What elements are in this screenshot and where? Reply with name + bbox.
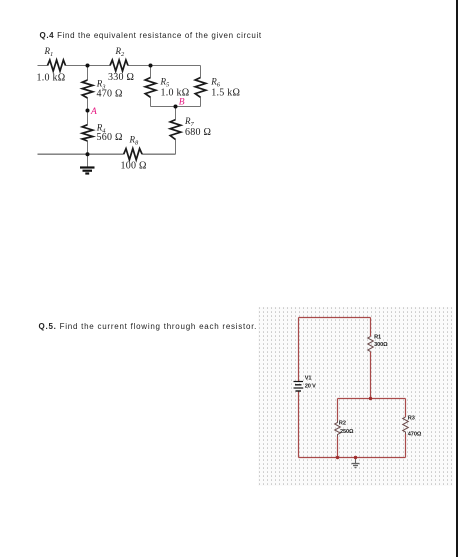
svg-text:R1: R1 <box>374 335 381 341</box>
wire R6 to parallel bottom <box>200 97 202 106</box>
svg-text:250Ω: 250Ω <box>340 429 354 435</box>
svg-text:470Ω: 470Ω <box>408 432 422 438</box>
wire R3 branch upper <box>405 399 407 418</box>
wire R2 branch upper <box>337 399 339 421</box>
svg-text:300Ω: 300Ω <box>374 342 388 348</box>
svg-text:20 V: 20 V <box>305 383 316 389</box>
resistor R8 <box>124 149 142 160</box>
ground (Q5) <box>352 458 360 468</box>
Q5 multisim schematic panel <box>258 306 454 486</box>
svg-text:V1: V1 <box>305 376 312 382</box>
junction node2 (top of R5) <box>149 64 153 68</box>
resistor R6 <box>195 78 206 98</box>
battery V1 <box>294 382 304 392</box>
node B junction <box>174 105 178 109</box>
svg-text:560 Ω: 560 Ω <box>97 132 123 143</box>
wire node1 down to R3 <box>87 66 89 81</box>
svg-text:R3: R3 <box>408 416 415 422</box>
ground <box>80 154 95 173</box>
Q.5 title <box>39 322 258 331</box>
wire R1 branch upper <box>370 318 372 337</box>
wire R3 branch lower <box>405 434 407 458</box>
wire node2 down to R5 <box>150 66 152 78</box>
svg-text:R1: R1 <box>44 46 54 58</box>
wire R4 to bottom junction <box>87 141 89 154</box>
bottom ground junction <box>86 152 90 156</box>
wire parallel bottom <box>151 106 201 108</box>
wire left vertical upper (V1 top) <box>298 318 300 382</box>
wire node2 to top-right corner <box>128 65 201 67</box>
junction bottom wire / ground <box>354 456 357 459</box>
Q.4 title <box>40 31 262 40</box>
resistor R2 <box>110 60 128 71</box>
svg-text:330 Ω: 330 Ω <box>108 72 134 83</box>
resistor R3 (470 ohm) zigzag <box>403 417 409 434</box>
svg-text:R2: R2 <box>115 46 126 58</box>
svg-text:R2: R2 <box>339 421 346 427</box>
resistor R7 <box>170 120 181 140</box>
svg-text:1.0 kΩ: 1.0 kΩ <box>37 73 66 84</box>
junction node1 (top of R3) <box>86 64 90 68</box>
resistor R5 <box>145 78 156 98</box>
grid background <box>258 307 453 486</box>
wire R1 to node1 <box>66 65 111 67</box>
wire R1 branch lower <box>370 352 372 399</box>
wire top-left stub <box>38 65 48 67</box>
wire corner down to R6 <box>200 66 202 78</box>
junction bottom wire / R2 <box>336 456 339 459</box>
wire bottom horizontal <box>299 457 406 459</box>
svg-text:R8: R8 <box>129 135 140 147</box>
wire bottom right segment <box>142 153 175 155</box>
Q4 circuit schematic <box>0 0 458 200</box>
wire middle horizontal <box>338 398 406 400</box>
svg-text:680 Ω: 680 Ω <box>185 127 211 138</box>
wire R7 down to bottom wire <box>175 140 177 155</box>
resistor R3 <box>82 80 93 98</box>
resistor R1 <box>48 60 66 71</box>
svg-text:A: A <box>90 107 97 117</box>
wire top horizontal <box>299 317 371 319</box>
page right border <box>456 0 458 557</box>
resistor R1 (300 ohm) zigzag <box>368 337 374 352</box>
svg-text:470 Ω: 470 Ω <box>97 89 123 100</box>
node A junction <box>86 109 90 113</box>
wire left vertical lower (V1 bottom) <box>298 391 300 458</box>
wire R2 branch lower <box>337 437 339 458</box>
wire bottom left segment <box>38 153 124 155</box>
resistor R4 <box>82 125 93 141</box>
wire node B down to R7 <box>175 107 177 120</box>
svg-text:1.5 kΩ: 1.5 kΩ <box>211 88 240 99</box>
svg-text:1.0 kΩ: 1.0 kΩ <box>161 88 190 99</box>
svg-text:100 Ω: 100 Ω <box>121 161 147 172</box>
wire R3 to node A <box>87 98 89 111</box>
junction middle wire / R1 <box>369 397 372 400</box>
svg-text:B: B <box>179 98 185 108</box>
resistor R2 (250 ohm) zigzag <box>335 421 341 437</box>
wire R5 to parallel bottom <box>150 97 152 106</box>
coordinates inside: page x-258, page y-306 <box>299 318 406 458</box>
wire node A to R4 <box>87 111 89 125</box>
